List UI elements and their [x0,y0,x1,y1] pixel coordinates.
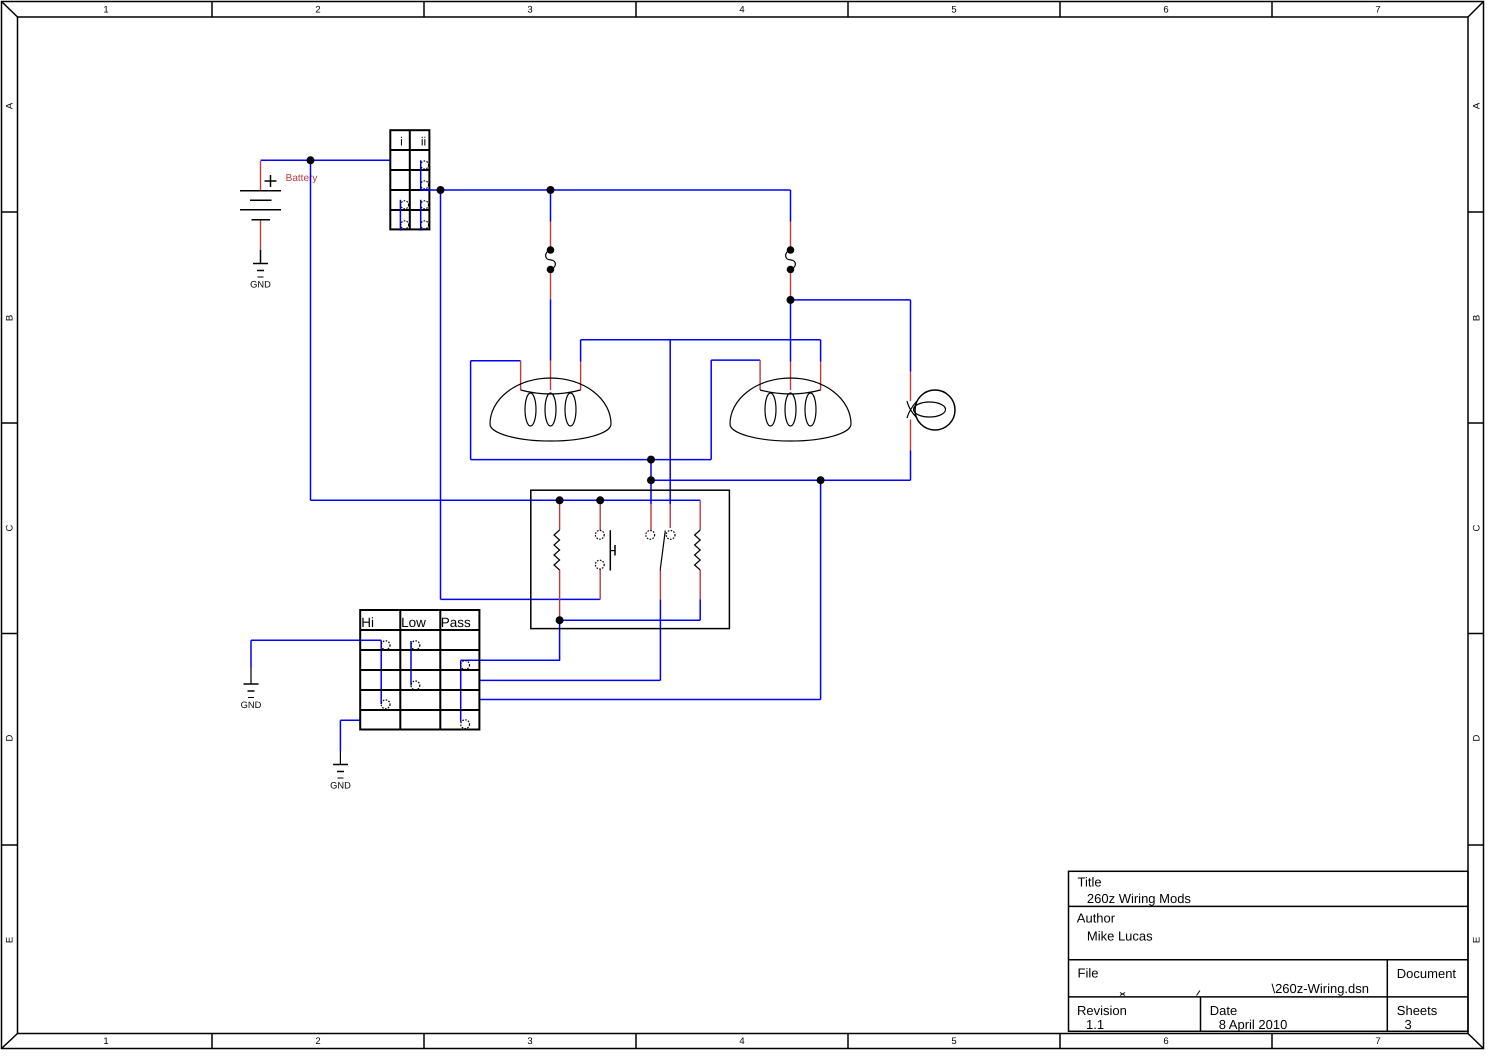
svg-text:8 April 2010: 8 April 2010 [1219,1017,1288,1032]
svg-text:C: C [1472,524,1483,531]
svg-text:A: A [5,102,16,109]
svg-text:Pass: Pass [441,615,471,630]
svg-text:1: 1 [103,1036,108,1047]
svg-text:B: B [5,315,16,321]
svg-text:D: D [5,734,16,741]
svg-text:Low: Low [401,615,426,630]
svg-text:Mike Lucas: Mike Lucas [1087,929,1153,944]
svg-text:Battery: Battery [286,173,318,184]
svg-text:260z Wiring Mods: 260z Wiring Mods [1087,891,1192,906]
svg-text:Author: Author [1077,911,1116,926]
svg-text:3: 3 [527,5,532,16]
svg-text:D: D [1472,734,1483,741]
svg-text:E: E [1472,937,1483,943]
svg-text:3: 3 [1405,1017,1412,1032]
svg-text:Revision: Revision [1077,1003,1127,1018]
svg-text:GND: GND [330,781,351,791]
svg-text:Title: Title [1078,875,1102,890]
svg-text:2: 2 [315,1036,320,1047]
svg-text:Hi: Hi [361,615,374,630]
svg-text:1.1: 1.1 [1086,1017,1104,1032]
svg-text:B: B [1472,315,1483,321]
svg-text:3: 3 [527,1036,532,1047]
svg-text:GND: GND [241,700,262,710]
svg-text:Sheets: Sheets [1397,1003,1438,1018]
svg-text:1: 1 [103,5,108,16]
svg-text:2: 2 [315,5,320,16]
svg-text:6: 6 [1163,5,1168,16]
svg-text:A: A [1472,102,1483,109]
svg-text:7: 7 [1375,5,1380,16]
svg-text:4: 4 [739,5,744,16]
svg-text:GND: GND [250,280,271,290]
svg-text:Document: Document [1397,966,1457,981]
svg-text:7: 7 [1375,1036,1380,1047]
svg-text:5: 5 [951,1036,956,1047]
svg-text:E: E [5,937,16,943]
svg-text:4: 4 [739,1036,744,1047]
svg-text:i: i [400,135,403,149]
svg-text:C: C [5,524,16,531]
svg-text:ii: ii [421,135,426,149]
svg-text:File: File [1078,966,1099,981]
svg-text:6: 6 [1163,1036,1168,1047]
svg-text:Date: Date [1210,1003,1237,1018]
svg-text:\260z-Wiring.dsn: \260z-Wiring.dsn [1271,981,1369,996]
svg-text:5: 5 [951,5,956,16]
